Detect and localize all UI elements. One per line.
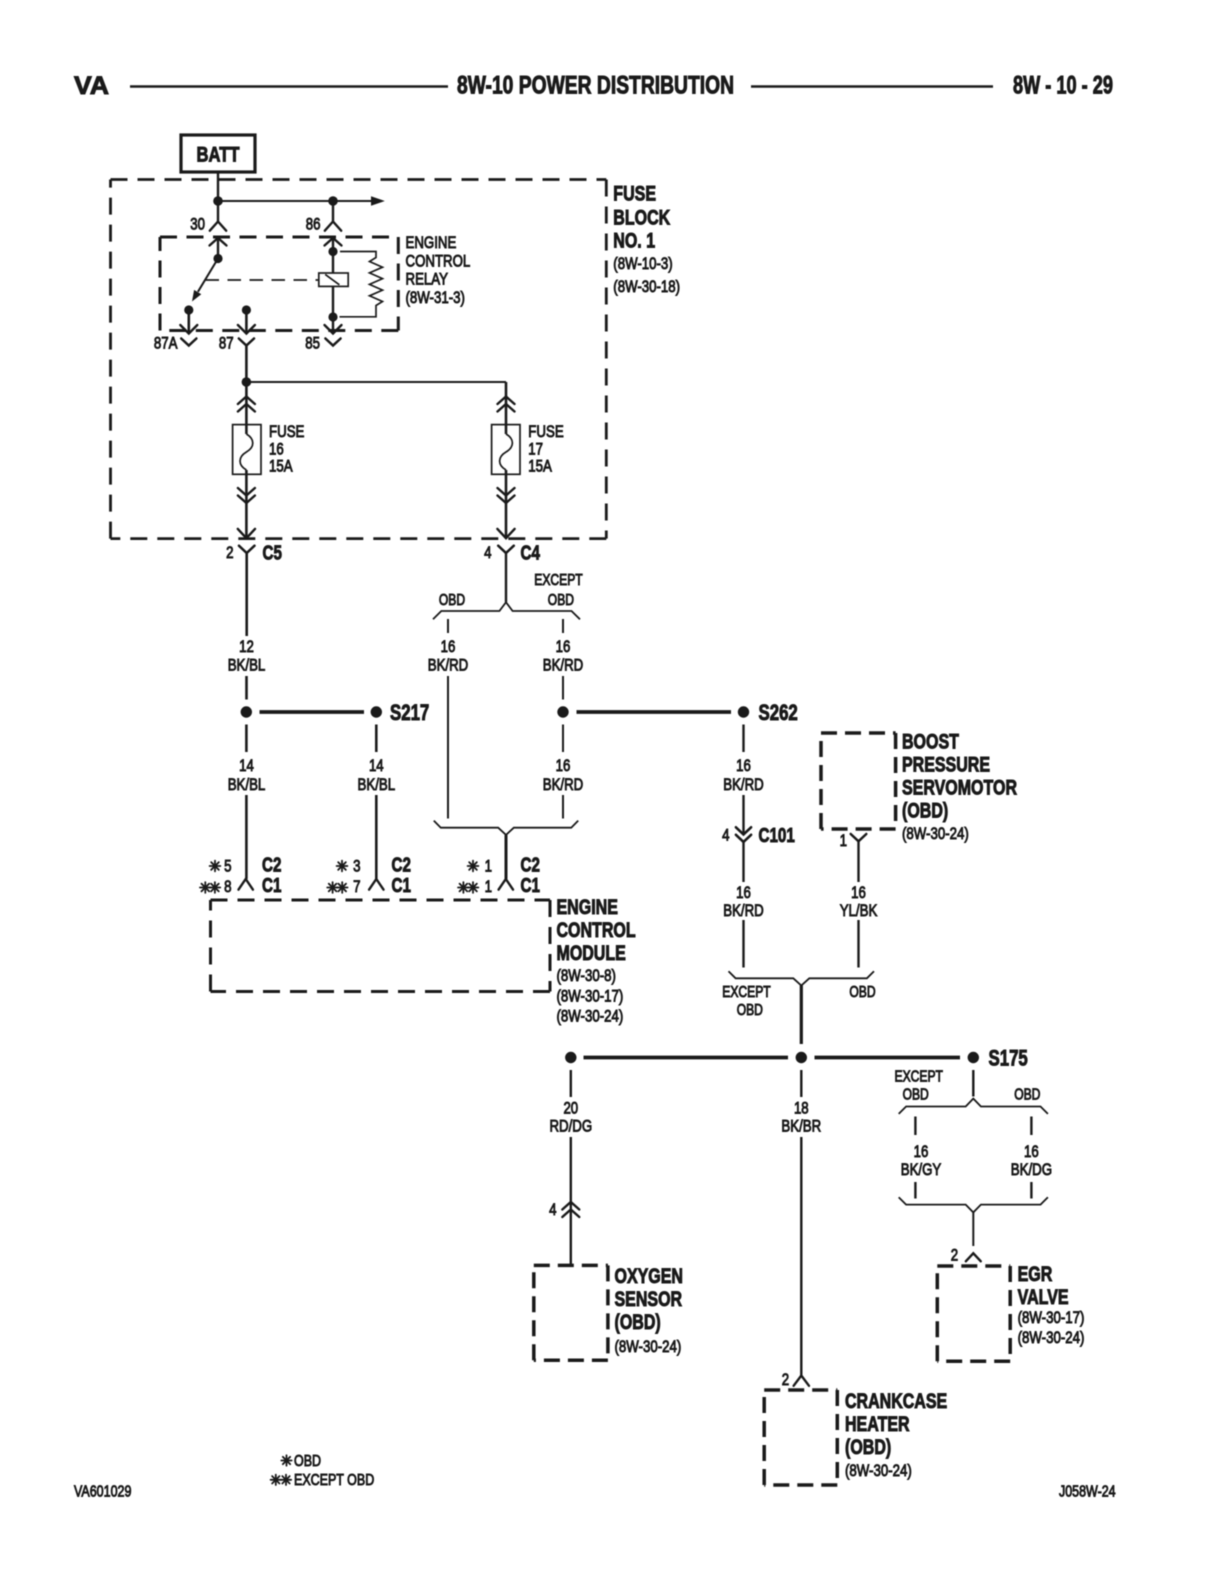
- ECM connector fork pin 5/8: [239, 879, 253, 890]
- page header title block: [74, 72, 1113, 101]
- pin 87 terminal: [219, 310, 255, 353]
- svg-text:YL/BK: YL/BK: [840, 901, 878, 920]
- label 14 BK/BL left: [228, 756, 266, 794]
- wire into splice S262: [562, 676, 564, 700]
- relay actuation dashed link: [206, 279, 319, 281]
- wire pin 87 down to fuse feed: [245, 346, 248, 435]
- fuse feed junction node: [242, 377, 252, 387]
- crankcase heater label: [845, 1390, 947, 1480]
- svg-text:C1: C1: [262, 874, 281, 897]
- wire to ECM C2 pin 3: [375, 795, 378, 879]
- svg-text:BATT: BATT: [197, 144, 240, 167]
- wire 16 YL/BK from servomotor: [857, 841, 859, 882]
- svg-text:(8W-30-8): (8W-30-8): [557, 966, 616, 985]
- svg-text:BK/BL: BK/BL: [228, 656, 266, 675]
- svg-text:SENSOR: SENSOR: [615, 1288, 683, 1311]
- svg-text:(8W-31-3): (8W-31-3): [406, 288, 465, 307]
- svg-text:14: 14: [369, 756, 384, 775]
- ECM pin row: *3 C2 / **7 C1: [327, 854, 411, 898]
- fuse 16 output arrows: [238, 488, 255, 503]
- svg-text:1: 1: [485, 877, 492, 896]
- svg-text:OBD: OBD: [849, 984, 875, 1001]
- pin 87A terminal: [154, 310, 197, 353]
- boost pressure servomotor dashed box: [821, 733, 896, 829]
- fuse 17 input arrows: [498, 397, 515, 412]
- svg-text:J058W-24: J058W-24: [1059, 1484, 1116, 1501]
- relay coil branch from pin 86: [332, 238, 334, 274]
- label 14 BK/BL right: [358, 756, 396, 794]
- svg-text:30: 30: [190, 215, 205, 234]
- svg-text:(8W-30-24): (8W-30-24): [557, 1007, 624, 1026]
- crankcase heater dashed box: [764, 1390, 837, 1485]
- wire 20 RD/DG down: [570, 1070, 572, 1097]
- svg-text:(8W-30-24): (8W-30-24): [902, 824, 969, 843]
- splice S217: [371, 700, 430, 725]
- pin 85 terminal: [305, 325, 341, 353]
- wire 16 BK/RD below splice: [562, 725, 564, 753]
- svg-text:S217: S217: [390, 700, 429, 725]
- svg-text:1: 1: [485, 857, 492, 876]
- relay coil (box with slash): [319, 273, 348, 286]
- fuse block no. 1 label: [613, 183, 680, 297]
- node splice S217 left: [241, 706, 252, 717]
- svg-text:15A: 15A: [528, 457, 552, 476]
- svg-text:16: 16: [556, 756, 571, 775]
- wire 16 BK/RD from S262: [742, 725, 744, 753]
- engine control module label: [557, 896, 636, 1026]
- wire fuse 16 to C5: [245, 470, 248, 538]
- svg-text:OBD: OBD: [737, 1002, 763, 1019]
- svg-text:FUSE: FUSE: [528, 422, 563, 441]
- svg-text:EGR: EGR: [1018, 1263, 1053, 1286]
- wire from C4 to split: [505, 553, 507, 602]
- svg-text:(8W-30-18): (8W-30-18): [613, 277, 680, 296]
- wire 14 BK/BL left leg: [245, 725, 248, 753]
- wire OBD branch down to merge: [447, 676, 449, 819]
- svg-text:RELAY: RELAY: [406, 270, 449, 289]
- svg-text:16: 16: [556, 637, 571, 656]
- relay switch pivot node: [213, 254, 222, 263]
- svg-text:OXYGEN: OXYGEN: [615, 1265, 684, 1288]
- svg-text:2: 2: [226, 543, 233, 562]
- label EXCEPT OBD: [722, 984, 771, 1019]
- label 16 YL/BK: [840, 883, 878, 920]
- svg-text:SERVOMOTOR: SERVOMOTOR: [902, 777, 1017, 800]
- svg-text:2: 2: [782, 1370, 789, 1389]
- svg-text:16: 16: [736, 756, 751, 775]
- label 20 RD/DG: [549, 1099, 592, 1136]
- svg-text:CONTROL: CONTROL: [557, 919, 636, 942]
- wire 16 BK/GY lower stub: [914, 1182, 916, 1199]
- svg-text:BK/GY: BK/GY: [901, 1160, 942, 1179]
- wire down to except-OBD merge: [742, 920, 744, 968]
- fuse 17 output arrows: [498, 488, 515, 503]
- label 16 BK/RD (except OBD): [543, 637, 584, 675]
- svg-text:C1: C1: [392, 874, 411, 897]
- wire into splice S217: [245, 676, 248, 700]
- fuse block no. 1 dashed enclosure: [111, 180, 607, 539]
- svg-text:16: 16: [736, 883, 751, 902]
- svg-text:EXCEPT: EXCEPT: [534, 572, 583, 589]
- wire merge to ECM pin 1: [505, 835, 508, 879]
- pin 86 connector symbol: [306, 201, 342, 246]
- svg-text:C5: C5: [263, 542, 282, 565]
- svg-text:HEATER: HEATER: [845, 1413, 910, 1436]
- pin 30 connector symbol: [190, 215, 226, 246]
- node at pin 87: [242, 305, 251, 314]
- svg-text:15A: 15A: [269, 457, 293, 476]
- svg-text:4: 4: [722, 826, 729, 845]
- svg-text:CRANKCASE: CRANKCASE: [845, 1390, 947, 1413]
- wire 18 BK/BR down: [800, 1070, 802, 1097]
- svg-text:VA: VA: [74, 72, 109, 100]
- svg-text:VA601029: VA601029: [74, 1484, 131, 1501]
- ECM connector fork pin 1/1: [499, 879, 513, 890]
- svg-text:EXCEPT: EXCEPT: [722, 984, 771, 1001]
- boost pressure servomotor label: [902, 731, 1017, 844]
- wire down to except-OBD merge: [857, 920, 859, 968]
- svg-text:BK/RD: BK/RD: [723, 775, 764, 794]
- label 18 BK/BR: [781, 1099, 821, 1136]
- svg-text:OBD: OBD: [548, 592, 574, 609]
- relay coil bottom node: [328, 312, 337, 321]
- wire bus right segment: [815, 1056, 961, 1060]
- svg-text:87: 87: [219, 334, 234, 353]
- svg-text:BK/BR: BK/BR: [781, 1117, 821, 1136]
- merge brace to EGR valve: [899, 1197, 1048, 1212]
- fuse 16 input arrows: [238, 397, 255, 412]
- svg-text:ENGINE: ENGINE: [406, 233, 457, 252]
- battery feed BATT box: [181, 135, 255, 172]
- svg-text:16: 16: [441, 637, 456, 656]
- svg-text:(8W-30-17): (8W-30-17): [1018, 1308, 1085, 1327]
- svg-text:(OBD): (OBD): [845, 1436, 891, 1459]
- label 16 BK/RD (OBD): [428, 637, 469, 675]
- svg-text:14: 14: [239, 756, 254, 775]
- wire splice bus to S217: [260, 710, 365, 714]
- merge brace except-OBD / OBD: [729, 971, 875, 985]
- wire down into fuse 17: [505, 382, 508, 434]
- svg-text:C1: C1: [521, 874, 540, 897]
- node B+ junction at top: [213, 196, 223, 206]
- node junction above pin 86: [328, 196, 338, 206]
- split brace except-OBD / OBD at S175: [899, 1099, 1048, 1114]
- EGR valve dashed box: [937, 1266, 1010, 1361]
- svg-text:S175: S175: [989, 1046, 1028, 1071]
- wire to ECM C2 pin 5: [245, 795, 248, 879]
- svg-text:1: 1: [840, 831, 847, 850]
- wire 16 BK/GY stub: [914, 1117, 916, 1136]
- svg-text:8: 8: [224, 877, 231, 896]
- svg-text:(8W-10-3): (8W-10-3): [613, 254, 672, 273]
- svg-text:BK/RD: BK/RD: [543, 775, 584, 794]
- svg-text:FUSE: FUSE: [269, 422, 304, 441]
- wire B+ feed to pin 86 (arrow): [218, 196, 385, 206]
- EGR valve label: [1018, 1263, 1085, 1347]
- wire 16 BK/RD OBD branch: [447, 619, 449, 633]
- fuse 16 (15A): [233, 422, 305, 476]
- svg-text:PRESSURE: PRESSURE: [902, 754, 990, 777]
- relay coil top node: [328, 247, 337, 256]
- label EXCEPT OBD left: [895, 1069, 944, 1104]
- svg-text:85: 85: [305, 334, 320, 353]
- svg-text:(OBD): (OBD): [902, 800, 948, 823]
- splice S262: [738, 700, 798, 725]
- svg-text:(8W-30-17): (8W-30-17): [557, 987, 624, 1006]
- svg-text:OBD: OBD: [439, 592, 465, 609]
- node bus center junction: [796, 1052, 807, 1063]
- svg-text:2: 2: [951, 1246, 958, 1265]
- wire feed across to fuse 17: [246, 381, 506, 383]
- label 16 BK/RD lower: [543, 756, 584, 794]
- ECM connector fork pin 3/7: [369, 879, 383, 890]
- svg-text:(8W-30-24): (8W-30-24): [615, 1337, 682, 1356]
- EGR valve connector pin 2: [951, 1246, 981, 1265]
- servomotor connector pin 1: [840, 831, 867, 850]
- splice S175: [968, 1046, 1028, 1071]
- svg-text:C4: C4: [521, 542, 541, 565]
- label 16 BK/RD below C101: [723, 883, 764, 920]
- wire BATT down to relay pin 30: [217, 172, 219, 222]
- wire 14 BK/BL from S217: [375, 725, 378, 753]
- svg-text:RD/DG: RD/DG: [549, 1117, 592, 1136]
- svg-text:8W - 10 - 29: 8W - 10 - 29: [1013, 72, 1113, 100]
- wire to oxygen sensor: [570, 1137, 572, 1265]
- wire 16 BK/DG lower stub: [1030, 1182, 1032, 1199]
- svg-text:8W-10 POWER DISTRIBUTION: 8W-10 POWER DISTRIBUTION: [457, 72, 734, 100]
- svg-text:BK/BL: BK/BL: [358, 775, 396, 794]
- connector C4 pin 4: [484, 529, 540, 565]
- engine control relay label: [406, 233, 471, 307]
- svg-text:12: 12: [239, 637, 254, 656]
- oxygen sensor connector pin 4 arrows: [549, 1200, 579, 1219]
- wire to EGR valve: [972, 1212, 974, 1246]
- oxygen sensor dashed box: [534, 1265, 608, 1360]
- wire 18 BK/BR trunk down: [800, 986, 803, 1045]
- svg-text:20: 20: [563, 1099, 578, 1118]
- crankcase heater connector pin 2: [782, 1370, 809, 1389]
- svg-text:3: 3: [353, 857, 360, 876]
- svg-text:16: 16: [851, 883, 866, 902]
- wire from S175 down: [972, 1070, 974, 1097]
- wire 16 BK/DG stub: [1030, 1117, 1032, 1136]
- node bus left junction: [565, 1052, 576, 1063]
- svg-text:BLOCK: BLOCK: [613, 207, 670, 230]
- node splice S262 left: [557, 706, 568, 717]
- svg-text:OBD: OBD: [903, 1087, 929, 1104]
- OBD / EXCEPT OBD split brace: [433, 602, 580, 619]
- wire 16 BK/RD except-OBD branch: [562, 619, 564, 633]
- svg-text:EXCEPT OBD: EXCEPT OBD: [294, 1472, 374, 1489]
- wire coil to pin 85: [332, 286, 334, 333]
- wire bus left segment: [584, 1056, 789, 1060]
- svg-text:C101: C101: [759, 824, 795, 847]
- relay switch arm (to 87A): [192, 259, 218, 302]
- relay suppression resistor: [340, 252, 383, 317]
- label EXCEPT OBD (right branch): [534, 572, 583, 609]
- wire 12 BK/BL from C5: [245, 553, 248, 636]
- node at pin 87A: [184, 305, 193, 314]
- ECM pin row: *5 C2 / **8 C1: [200, 854, 282, 898]
- svg-text:NO. 1: NO. 1: [613, 230, 655, 253]
- svg-text:(8W-30-24): (8W-30-24): [1018, 1328, 1085, 1347]
- svg-text:FUSE: FUSE: [613, 183, 656, 206]
- wire into C101: [742, 795, 744, 835]
- svg-text:VALVE: VALVE: [1018, 1286, 1069, 1309]
- svg-text:87A: 87A: [154, 334, 178, 353]
- wire 16 BK/RD below C101: [742, 842, 744, 882]
- oxygen sensor label: [615, 1265, 684, 1356]
- svg-text:4: 4: [484, 543, 491, 562]
- wire splice bus to S262: [577, 710, 732, 714]
- label 12 BK/BL: [228, 637, 266, 675]
- svg-text:OBD: OBD: [1014, 1087, 1040, 1104]
- svg-text:BK/RD: BK/RD: [723, 901, 764, 920]
- svg-text:BK/BL: BK/BL: [228, 775, 266, 794]
- svg-text:BK/RD: BK/RD: [543, 656, 584, 675]
- ECM pin row: *1 C2 / **1 C1: [458, 854, 540, 898]
- connector C5 pin 2: [226, 529, 282, 565]
- svg-text:ENGINE: ENGINE: [557, 896, 618, 919]
- connector C101 pin 4: [722, 824, 795, 847]
- svg-text:BK/RD: BK/RD: [428, 656, 469, 675]
- wire down to merge brace: [562, 795, 564, 819]
- svg-text:16: 16: [914, 1142, 929, 1161]
- svg-text:BOOST: BOOST: [902, 731, 959, 754]
- svg-text:86: 86: [306, 215, 321, 234]
- svg-text:MODULE: MODULE: [557, 942, 626, 965]
- svg-text:CONTROL: CONTROL: [406, 251, 471, 270]
- svg-text:16: 16: [1024, 1142, 1039, 1161]
- svg-text:5: 5: [224, 857, 231, 876]
- svg-text:4: 4: [549, 1200, 556, 1219]
- svg-text:(OBD): (OBD): [615, 1311, 661, 1334]
- svg-text:EXCEPT: EXCEPT: [895, 1069, 944, 1086]
- svg-text:18: 18: [794, 1099, 809, 1118]
- svg-text:7: 7: [353, 877, 360, 896]
- merge brace into ECM C2/C1 pin 1: [434, 821, 578, 835]
- engine control module dashed box: [211, 900, 551, 992]
- label 16 BK/RD: [723, 756, 764, 794]
- footer legend **EXCEPT OBD: [271, 1472, 375, 1489]
- wire to crankcase heater: [800, 1137, 802, 1376]
- wire fuse 17 to C4: [505, 470, 508, 538]
- relay switch common from pin 30: [217, 238, 219, 259]
- svg-text:S262: S262: [759, 700, 798, 725]
- svg-text:OBD: OBD: [294, 1453, 321, 1470]
- svg-text:BK/DG: BK/DG: [1011, 1160, 1052, 1179]
- engine control relay dashed box: [160, 237, 398, 331]
- label 16 BK/GY: [901, 1142, 942, 1179]
- svg-text:(8W-30-24): (8W-30-24): [845, 1461, 912, 1480]
- fuse 17 (15A): [492, 422, 564, 476]
- label 16 BK/DG: [1011, 1142, 1052, 1179]
- footer legend *OBD: [281, 1453, 321, 1470]
